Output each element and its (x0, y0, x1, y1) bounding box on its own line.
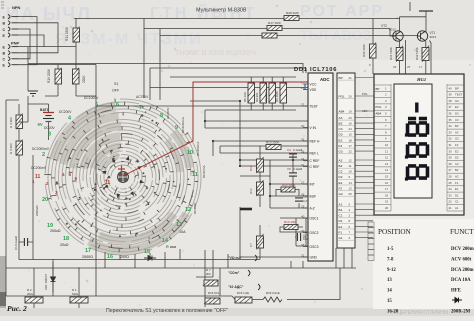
rotary switch S1 contact dots (56, 106, 193, 239)
svg-text:R14 220K: R14 220K (65, 26, 69, 41)
svg-text:5: 5 (69, 172, 72, 177)
svg-text:18: 18 (349, 138, 353, 142)
wire OSC2 (296, 231, 308, 233)
wire bottom right link (232, 268, 340, 300)
svg-text:R16 9С1: R16 9С1 (208, 291, 220, 295)
svg-text:AC750V: AC750V (136, 95, 149, 99)
svg-text:DC2000mV: DC2000mV (32, 147, 50, 151)
resistor R14 220K (73, 27, 80, 43)
wire resistor bottoms to switch (58, 84, 76, 96)
svg-text:10: 10 (187, 150, 193, 156)
wire bus y87.5 (150, 68, 311, 88)
wire transistor emitters (373, 19, 431, 75)
rotary switch S1 rotor arrows (102, 156, 145, 199)
pin D2 (9) (337, 175, 355, 179)
wire REF LO (220, 146, 308, 153)
wire bottom rail y296 (6, 295, 232, 297)
svg-text:R15 1,0Е: R15 1,0Е (237, 291, 249, 295)
svg-text:12: 12 (349, 158, 353, 162)
pin VCC (1) (301, 81, 317, 87)
svg-text:F3: F3 (339, 144, 343, 148)
wire switch right verticals (196, 250, 228, 307)
socket pin E (NPN) (3, 14, 19, 19)
svg-text:A1: A1 (455, 206, 459, 210)
svg-text:VT2: VT2 (381, 24, 387, 28)
rotor + mark (118, 166, 125, 173)
transistor VT2 9012 (393, 31, 403, 41)
pin G3 (22) (337, 150, 355, 154)
svg-text:B2: B2 (455, 168, 459, 172)
resistor R4 9K0 (16, 113, 23, 129)
svg-text:25: 25 (349, 192, 353, 196)
svg-text:REF L: REF L (310, 152, 320, 156)
svg-text:BP: BP (376, 87, 380, 91)
svg-text:9012: 9012 (389, 28, 396, 32)
svg-text:A2: A2 (339, 158, 343, 162)
svg-text:DCA 10A: DCA 10A (451, 278, 471, 283)
svg-text:19: 19 (349, 109, 353, 113)
svg-text:200R-2M: 200R-2M (451, 309, 471, 314)
svg-text:8: 8 (160, 113, 163, 119)
capacitor C5 0.1uF (289, 173, 297, 176)
svg-text:R30 470K: R30 470K (362, 44, 366, 57)
svg-text:18: 18 (63, 236, 69, 242)
wire socket B bus (18, 23, 58, 53)
table row 13 (387, 278, 471, 283)
svg-text:R8 9К0: R8 9К0 (264, 92, 268, 102)
svg-text:16-20: 16-20 (387, 309, 399, 314)
power rail stub (419, 10, 433, 12)
svg-text:E1: E1 (339, 225, 343, 229)
capacitor C1 0.1uF (24, 238, 27, 246)
svg-text:17: 17 (419, 65, 423, 69)
svg-text:AB4: AB4 (339, 109, 345, 113)
wire vertical x240 mid (239, 101, 241, 257)
svg-text:C3: C3 (455, 118, 459, 122)
pin AB4 (19) (337, 109, 355, 113)
svg-text:POL: POL (376, 105, 382, 109)
wire top bus y28.5 (144, 29, 393, 37)
wire socket E bus (18, 17, 37, 65)
svg-text:C7: C7 (249, 243, 253, 247)
resistor R6 1М0 (280, 83, 287, 103)
LCD digits 1888 (405, 103, 429, 181)
svg-text:11: 11 (35, 174, 41, 180)
svg-text:HG1: HG1 (416, 77, 426, 82)
wire vertical x296 osc (295, 218, 297, 246)
svg-text:POSITION: POSITION (378, 228, 412, 236)
svg-text:28: 28 (449, 162, 453, 166)
svg-text:E2: E2 (339, 181, 343, 185)
svg-text:G1: G1 (339, 236, 343, 240)
svg-text:D1: D1 (455, 193, 459, 197)
svg-text:"10 АДС": "10 АДС" (228, 285, 244, 289)
resistor R17 1M0 (267, 26, 282, 31)
pin B1 (4) (337, 208, 355, 212)
pin D3 (15) (337, 133, 355, 137)
svg-text:BUF: BUF (310, 195, 317, 199)
svg-text:DCV 200m: DCV 200m (451, 247, 474, 252)
resistor R8 9К0 (269, 83, 276, 103)
svg-text:9: 9 (175, 125, 178, 131)
svg-text:R13 220K: R13 220K (266, 141, 279, 145)
svg-text:2К0: 2К0 (206, 272, 211, 276)
svg-text:REF H: REF H (310, 140, 321, 144)
rotary switch S1 contact ticks (44, 99, 198, 253)
svg-text:9013: 9013 (430, 35, 437, 39)
socket pin E (PNP) (3, 44, 19, 49)
pin BP (21) (337, 76, 355, 80)
svg-text:A3: A3 (339, 116, 343, 120)
svg-text:10: 10 (349, 170, 353, 174)
pin F1 (7) (337, 230, 355, 234)
svg-text:13: 13 (349, 186, 353, 190)
svg-text:DC200mA: DC200mA (196, 141, 200, 156)
wire vertical x160 (159, 29, 161, 101)
svg-text:"COm": "COm" (228, 271, 240, 275)
socket pin B (NPN) (3, 21, 19, 26)
svg-text:B3: B3 (455, 124, 459, 128)
resistor R18 220K (73, 68, 80, 85)
wire x96 upper (95, 106, 97, 268)
pin E2 (14) (337, 181, 355, 185)
svg-text:16: 16 (349, 122, 353, 126)
svg-text:25: 25 (449, 181, 453, 185)
wire bus y63.5 (28, 64, 303, 74)
svg-text:100: 100 (303, 237, 308, 241)
svg-text:30: 30 (449, 149, 453, 153)
svg-text:22: 22 (349, 150, 353, 154)
svg-text:R 4 9К0: R 4 9К0 (9, 117, 13, 128)
wire drops below switch (105, 249, 180, 268)
resistor R9 901 (260, 83, 267, 103)
svg-text:10A: 10A (179, 230, 186, 234)
diode VD1 1N4007 (51, 262, 56, 292)
svg-text:15: 15 (144, 249, 150, 255)
svg-text:2: 2 (42, 152, 45, 158)
svg-text:OFF: OFF (112, 89, 120, 93)
svg-text:DD1 ICL7106: DD1 ICL7106 (294, 67, 337, 73)
socket pin E (PNP) (3, 63, 19, 68)
pin C3 (24) (337, 127, 355, 131)
wire left column x19 (19, 104, 28, 260)
svg-text:15: 15 (385, 175, 389, 179)
resistor R19 220K (55, 68, 62, 85)
wire GND (240, 256, 308, 258)
svg-text:3: 3 (55, 190, 58, 195)
pin E3 (18) (337, 138, 355, 142)
svg-text:24: 24 (349, 127, 353, 131)
svg-text:E3: E3 (455, 105, 459, 109)
pin VSS (26) (301, 86, 317, 92)
resistor R3 900 (16, 140, 23, 156)
wire R11 R12 chain (259, 146, 261, 207)
pin V IN (30) (301, 124, 317, 130)
transistor VT1 9013 (417, 31, 427, 41)
pin POL (20) (337, 94, 355, 98)
wire vertical x96 (95, 65, 97, 107)
wire cap column (292, 154, 294, 187)
wire transistor top link (409, 2, 411, 11)
svg-text:32: 32 (449, 137, 453, 141)
svg-text:Рис. 2: Рис. 2 (7, 304, 27, 313)
svg-text:R31 510K: R31 510K (389, 47, 393, 60)
wire R1 R2 verticals (34, 268, 96, 308)
svg-text:2000Ω: 2000Ω (82, 255, 93, 259)
battery BAT1 symbol (43, 104, 54, 130)
wire rail y64.5 (28, 64, 96, 66)
pin B3 (16) (337, 122, 355, 126)
svg-text:34: 34 (449, 124, 453, 128)
svg-text:Переключатель S1 установлен в: Переключатель S1 установлен в положение … (106, 308, 228, 314)
resistor R12 2К0 (257, 180, 264, 196)
IC segment-driver column (337, 73, 355, 248)
svg-text:C REF: C REF (310, 159, 320, 163)
svg-text:11: 11 (105, 180, 111, 186)
pin C1 (2) (337, 214, 355, 218)
svg-text:BP: BP (455, 86, 459, 90)
svg-text:РОТ АРР: РОТ АРР (300, 3, 384, 20)
svg-text:VCC: VCC (310, 83, 318, 87)
svg-text:E1: E1 (455, 187, 459, 191)
svg-text:17: 17 (385, 187, 389, 191)
svg-text:A2: A2 (455, 175, 459, 179)
svg-text:D3: D3 (339, 133, 343, 137)
pin C REF (33) (301, 163, 319, 169)
svg-text:20: 20 (42, 197, 48, 203)
svg-text:VSS: VSS (310, 88, 317, 92)
svg-text:14: 14 (385, 168, 389, 172)
table POSITION/FUNCTION background (373, 219, 474, 309)
display left pin column (374, 84, 391, 211)
svg-text:21: 21 (449, 206, 453, 210)
capacitor C7 (257, 234, 264, 249)
svg-text:GND: GND (310, 256, 318, 260)
svg-text:A3: A3 (455, 130, 459, 134)
svg-text:B: B (3, 52, 6, 56)
svg-text:C2: C2 (455, 162, 459, 166)
wire bus y96 (45, 95, 96, 97)
svg-text:D2: D2 (339, 175, 343, 179)
pin A2 (12) (337, 158, 355, 162)
svg-text:R9 901: R9 901 (255, 92, 259, 102)
svg-text:200кΩ: 200кΩ (50, 229, 61, 233)
svg-text:G3: G3 (455, 99, 459, 103)
svg-text:B2: B2 (339, 164, 343, 168)
svg-text:3: 3 (48, 132, 51, 138)
wire V IN (205, 121, 308, 128)
wire C7 leads (259, 225, 261, 260)
connector cells below display (368, 222, 374, 261)
wire INT (270, 183, 308, 185)
svg-text:R17 1М0: R17 1М0 (268, 21, 281, 25)
svg-text:2: 2 (46, 181, 49, 186)
rotary switch S1 shaded sector (upper-left) (54, 106, 189, 250)
svg-text:11: 11 (349, 164, 352, 168)
table row 1-5 (387, 247, 474, 252)
svg-text:DC20mA: DC20mA (202, 165, 206, 178)
svg-text:TEST: TEST (455, 93, 462, 97)
svg-text:C3: C3 (339, 127, 343, 131)
wire bottom rail y259.5 (19, 259, 260, 261)
svg-text:36: 36 (449, 112, 453, 116)
wire C REF- (240, 165, 308, 167)
svg-text:R29 0,01Е: R29 0,01Е (266, 291, 280, 295)
blue mark VSS (304, 84, 306, 90)
svg-text:OSC2: OSC2 (310, 231, 319, 235)
capacitor C4 0.1uF (289, 154, 297, 157)
svg-text:39: 39 (449, 93, 453, 97)
svg-text:20кΩ: 20кΩ (60, 243, 69, 247)
svg-text:C1: C1 (339, 214, 343, 218)
svg-text:4: 4 (62, 172, 65, 177)
socket pin B (PNP) (3, 51, 19, 56)
svg-text:C4: C4 (287, 148, 291, 152)
wire vertical x76 upper (58, 19, 76, 70)
svg-text:40: 40 (449, 86, 453, 90)
svg-text:D2: D2 (455, 156, 459, 160)
svg-text:16: 16 (385, 181, 389, 185)
svg-text:DC2000: DC2000 (193, 202, 197, 214)
junction dots mid (204, 100, 294, 197)
resistor R31 510K (396, 46, 403, 62)
op-amp U1 ADC main body (308, 73, 333, 261)
wire bus y77 (96, 76, 296, 78)
svg-text:14: 14 (349, 181, 353, 185)
svg-text:26: 26 (393, 65, 397, 69)
wire far-left border x6 (6, 100, 19, 296)
svg-text:DC2000mA: DC2000mA (181, 116, 185, 133)
svg-text:DC200mV: DC200mV (31, 166, 47, 170)
wire top bus y35.5 (160, 35, 418, 37)
wire socket C bus (18, 29, 30, 59)
svg-text:DC20V: DC20V (44, 126, 55, 130)
svg-text:D3: D3 (455, 112, 459, 116)
svg-text:14: 14 (162, 238, 169, 244)
svg-text:FUNCT: FUNCT (450, 228, 474, 236)
svg-text:R12: R12 (249, 188, 253, 194)
socket pin C (PNP) (3, 57, 19, 62)
svg-text:E3: E3 (339, 138, 343, 142)
pin A-Z (29) (301, 205, 315, 211)
svg-text:11: 11 (385, 149, 388, 153)
svg-text:AB4: AB4 (376, 112, 382, 116)
svg-text:R11: R11 (249, 165, 253, 171)
diode mark position 15 (144, 256, 156, 261)
red supply wire to VCC pin 1 (123, 82, 308, 176)
svg-text:V IN: V IN (310, 126, 317, 130)
svg-text:R5 100: R5 100 (243, 92, 247, 102)
pin TEST (37) (301, 103, 318, 109)
svg-text:R19 220K: R19 220K (47, 68, 51, 83)
svg-text:200Ω: 200Ω (120, 255, 129, 259)
svg-text:37: 37 (449, 105, 453, 109)
resistor R11 300K (257, 157, 264, 173)
svg-text:TEST: TEST (310, 105, 318, 109)
pin G1 (3) (337, 236, 355, 240)
resistor R10 10K (283, 225, 298, 230)
resistor R32 510K (422, 46, 429, 62)
svg-text:13: 13 (176, 222, 182, 228)
svg-text:7-8: 7-8 (387, 257, 394, 262)
resistor R13 220K (266, 145, 281, 150)
svg-text:VD1 1N4007: VD1 1N4007 (44, 274, 48, 290)
svg-text:R28 1М0: R28 1М0 (286, 11, 299, 15)
capacitor C6 0.47uF (295, 198, 303, 201)
svg-text:21: 21 (349, 76, 353, 80)
pin D1 (8) (337, 219, 355, 223)
svg-text:DCA 200m: DCA 200m (451, 268, 474, 273)
svg-text:18: 18 (385, 193, 389, 197)
pin BUF (28) (301, 193, 316, 199)
wire vertical x144 (143, 19, 145, 99)
wire y146 (220, 145, 308, 147)
svg-text:AC200V: AC200V (166, 107, 170, 119)
display right pin column (447, 84, 464, 211)
table row 7-8 (387, 257, 472, 262)
svg-text:20: 20 (349, 94, 353, 98)
wire vertical x270 mid (269, 160, 271, 208)
svg-text:20: 20 (385, 206, 389, 210)
wire C1 leads (19, 155, 33, 260)
pin C2 (10) (337, 170, 355, 174)
wire osc network (280, 218, 306, 246)
wire C REF+ (240, 159, 308, 161)
pin OSC3 (38) (301, 243, 319, 249)
svg-text:C: C (3, 28, 6, 32)
svg-text:23: 23 (449, 193, 453, 197)
svg-text:17: 17 (349, 144, 353, 148)
resistor R14 300K (280, 187, 295, 192)
resistor R30 470K (370, 43, 377, 59)
pin G2 (25) (337, 192, 355, 196)
pin REF L (35) (301, 150, 319, 156)
svg-text:R32 510K: R32 510K (415, 47, 419, 60)
wire AZ (270, 207, 308, 209)
svg-text:E2: E2 (455, 149, 459, 153)
svg-text:27: 27 (449, 168, 453, 172)
svg-text:S1: S1 (114, 82, 118, 86)
pin A1 (5) (337, 202, 355, 206)
svg-text:R10 10К: R10 10К (284, 220, 296, 224)
svg-text:B: B (3, 22, 6, 26)
svg-text:ТНОМГ В 8005 ИЦИЗОЧ: ТНОМГ В 8005 ИЦИЗОЧ (175, 50, 256, 57)
svg-text:DC1000V: DC1000V (84, 96, 99, 100)
socket pin C (NPN) (3, 27, 19, 32)
rotary switch S1 dark track fragments (68, 110, 194, 249)
svg-text:C2: C2 (339, 170, 343, 174)
pin OSC2 (39) (301, 229, 319, 235)
svg-text:10: 10 (385, 143, 389, 147)
wire BUF (270, 195, 308, 197)
wire VD1 bottom (52, 260, 54, 297)
svg-text:C1 0,1мкФ: C1 0,1мкФ (14, 235, 18, 250)
wire IC bottom drops (291, 248, 352, 268)
wire top bus y18.5 (74, 18, 400, 20)
svg-text:9V: 9V (38, 122, 43, 127)
svg-text:220K: 220K (82, 75, 86, 83)
svg-text:12: 12 (185, 207, 191, 213)
resistor R5 100 (248, 83, 255, 103)
wire y127 (205, 127, 308, 129)
svg-text:A1: A1 (339, 202, 343, 206)
svg-text:HFE: HFE (451, 289, 461, 294)
wire vertical x28 (27, 47, 29, 91)
pin E1 (6) (337, 225, 355, 229)
svg-text:14: 14 (387, 289, 392, 294)
svg-text:5: 5 (95, 102, 98, 108)
svg-text:15: 15 (387, 299, 392, 304)
